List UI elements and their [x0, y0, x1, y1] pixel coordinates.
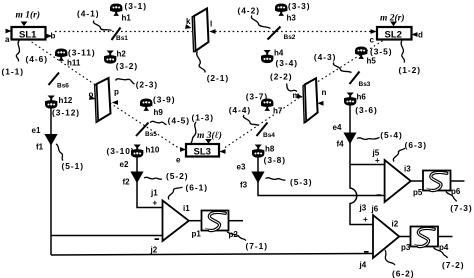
svg-text:(4-3): (4-3)	[314, 52, 336, 62]
amplifier f3	[251, 172, 264, 184]
svg-text:SL2: SL2	[385, 30, 402, 41]
svg-text:(7-3): (7-3)	[450, 203, 472, 213]
svg-text:h4: h4	[274, 49, 284, 58]
svg-text:h1: h1	[122, 14, 132, 23]
wire dashed beam mirror n to SL2	[318, 41, 383, 82]
detector h2	[104, 51, 116, 64]
leader squiggle (4-4) to Bs4	[243, 115, 258, 126]
wire op2 output to box p5	[411, 180, 423, 182]
leader squiggle mirror op to (2-3)	[116, 79, 135, 84]
laser source SL3	[186, 139, 219, 158]
svg-text:p: p	[114, 88, 119, 97]
svg-text:p3: p3	[401, 243, 411, 252]
svg-text:h3: h3	[287, 14, 297, 23]
svg-text:(3-3): (3-3)	[288, 1, 310, 11]
svg-text:(3-1): (3-1)	[125, 1, 147, 11]
leader squiggle op2 to (6-3)	[393, 148, 405, 162]
wire dashed beam SL1 to mirror o	[28, 40, 97, 87]
svg-text:(4-6): (4-6)	[26, 54, 48, 64]
wire box S3 output	[438, 236, 453, 238]
svg-text:m 1(r): m 1(r)	[16, 10, 41, 21]
svg-text:+: +	[153, 199, 158, 208]
svg-text:m 3(ℓ): m 3(ℓ)	[197, 130, 222, 141]
svg-text:(1-2): (1-2)	[399, 65, 421, 75]
svg-text:(3-4): (3-4)	[276, 58, 298, 68]
beam splitter Bs1	[112, 28, 121, 41]
svg-text:(5-2): (5-2)	[166, 171, 188, 181]
svg-text:(3-6): (3-6)	[355, 105, 377, 115]
svg-text:+: +	[363, 215, 368, 224]
detector h5	[355, 47, 367, 59]
svg-text:Bs1: Bs1	[116, 35, 128, 42]
svg-text:(6-2): (6-2)	[392, 268, 414, 278]
leader squiggle p6 to (7-3)	[446, 192, 457, 202]
svg-text:(6-1): (6-1)	[186, 182, 208, 192]
svg-text:j3: j3	[359, 204, 367, 213]
wire dashed beam mirror p to SL3	[110, 103, 181, 150]
svg-text:(5-3): (5-3)	[290, 177, 312, 187]
svg-text:m 2(r): m 2(r)	[380, 13, 405, 24]
detector h12	[45, 96, 57, 109]
svg-text:(3-2): (3-2)	[116, 61, 138, 71]
svg-text:e: e	[176, 156, 181, 165]
svg-text:l: l	[210, 20, 212, 29]
leader squiggle op3 to (6-2)	[385, 250, 395, 265]
svg-text:h12: h12	[59, 96, 73, 105]
transfer box S2	[423, 171, 451, 191]
op-amp U1	[163, 201, 189, 242]
svg-text:(5-1): (5-1)	[62, 161, 84, 171]
svg-text:Bs3: Bs3	[359, 81, 371, 88]
svg-text:p6: p6	[451, 187, 461, 196]
leader squiggle f3 to (5-3)	[266, 178, 286, 180]
leader squiggle (4-2) to Bs2	[251, 16, 270, 29]
port arrow d into SL2 right	[411, 32, 417, 37]
leader squiggle p4 to (7-2)	[434, 248, 448, 259]
port arrow into SL2 left	[371, 29, 377, 34]
svg-text:(2-3): (2-3)	[136, 79, 158, 89]
svg-text:(7-1): (7-1)	[246, 241, 268, 251]
svg-text:e3: e3	[237, 163, 246, 172]
svg-text:d: d	[418, 31, 423, 40]
detector h10	[131, 145, 143, 158]
transfer box S3	[411, 227, 439, 247]
svg-text:(3-8): (3-8)	[264, 155, 286, 165]
port arrow into SL3 left	[180, 147, 186, 152]
svg-text:j4: j4	[359, 261, 367, 270]
arrow m into mirror	[297, 94, 304, 100]
leader squiggle (4-3) to Bs3	[333, 63, 351, 73]
svg-text:(2-2): (2-2)	[270, 72, 292, 82]
svg-text:(4-1): (4-1)	[77, 9, 99, 19]
port arrow b out of SL1	[46, 34, 52, 39]
svg-text:+: +	[375, 156, 380, 165]
wire main dotted beam mirror l to SL2	[215, 31, 372, 33]
leader squiggle (4-1) to Bs1	[93, 21, 111, 31]
amplifier f1	[44, 134, 57, 146]
leader squiggle op1 to (6-1)	[168, 187, 182, 200]
leader squiggle f1 to (5-1)	[56, 144, 63, 161]
port arrow into SL3 right	[219, 149, 225, 154]
detector h4	[261, 50, 273, 63]
laser source SL1	[12, 22, 46, 41]
mirror m/n	[303, 78, 318, 123]
svg-text:(5-4): (5-4)	[380, 130, 402, 140]
beam splitter Bs5	[136, 123, 149, 137]
svg-text:(4-2): (4-2)	[238, 5, 260, 15]
detector h9	[140, 99, 152, 111]
minus sign op2	[377, 194, 382, 196]
arrow l into mirror	[209, 29, 215, 34]
wire h8 down through f3 to op2 minus	[258, 157, 385, 196]
beam splitter Bs4	[257, 123, 268, 137]
svg-text:h9: h9	[154, 108, 164, 117]
wire box S1 output	[229, 220, 244, 222]
detector h8	[252, 145, 264, 158]
svg-text:Bs6: Bs6	[57, 83, 69, 90]
wire op1 output to box p1	[189, 220, 202, 222]
wire box S2 output	[451, 180, 465, 182]
svg-text:b: b	[51, 32, 56, 41]
amplifier f4	[343, 133, 356, 145]
svg-text:(3-5): (3-5)	[370, 46, 392, 56]
svg-text:h6: h6	[357, 93, 367, 102]
svg-text:j2: j2	[150, 245, 158, 254]
svg-text:(4-4): (4-4)	[229, 105, 251, 115]
svg-text:h2: h2	[117, 50, 127, 59]
beam splitter Bs2	[268, 27, 281, 40]
svg-text:(3-9): (3-9)	[153, 95, 175, 105]
leader squiggle f2 to (5-2)	[144, 177, 162, 179]
svg-text:e2: e2	[120, 160, 129, 169]
wire h6 down through f4 branch to op2 plus	[350, 105, 385, 165]
leader squiggle SL1 to (1-1)	[16, 40, 19, 62]
leader squiggle p2 to (7-1)	[227, 232, 246, 241]
leader squiggle f4 to (5-4)	[357, 138, 380, 140]
svg-text:Bs2: Bs2	[284, 34, 296, 41]
wire f1 branch to op1 minus	[51, 235, 163, 237]
leader squiggle (1-3) to SL3	[191, 122, 196, 143]
svg-text:p1: p1	[192, 230, 202, 239]
wire dashed beam SL3 to mirror m	[225, 97, 301, 148]
amplifier f2	[130, 172, 143, 184]
leader squiggle SL2 to (1-2)	[401, 41, 405, 63]
svg-text:j1: j1	[150, 189, 158, 198]
minus sign op1	[155, 238, 160, 240]
svg-text:f4: f4	[337, 140, 345, 149]
svg-text:(3-12): (3-12)	[52, 108, 80, 118]
svg-text:c: c	[370, 36, 375, 45]
svg-text:e4: e4	[333, 123, 342, 132]
svg-text:(1-3): (1-3)	[192, 113, 214, 123]
detector h11	[55, 49, 67, 61]
svg-text:n: n	[322, 88, 327, 97]
arrow k into mirror	[185, 24, 192, 30]
wire f1 bottom bus to op3 minus	[51, 254, 373, 256]
beam splitter Bs6	[49, 73, 60, 86]
svg-text:i2: i2	[392, 220, 399, 229]
detector h1	[110, 4, 122, 16]
mirror k/l	[192, 9, 208, 52]
mirror o/p	[95, 78, 111, 122]
leader squiggle mirror mn to (2-2)	[287, 84, 298, 92]
svg-text:h10: h10	[146, 146, 160, 155]
leader squiggle mirror kl to (2-1)	[197, 52, 205, 73]
svg-text:p5: p5	[413, 188, 423, 197]
arrow n into mirror	[317, 101, 323, 106]
svg-text:Bs5: Bs5	[145, 131, 157, 138]
svg-text:(3-11): (3-11)	[68, 48, 96, 58]
svg-text:(2-1): (2-1)	[207, 73, 229, 83]
svg-text:j6: j6	[371, 205, 379, 214]
svg-text:(3-7): (3-7)	[246, 91, 268, 101]
svg-text:e1: e1	[32, 126, 41, 135]
arrow p into mirror	[112, 100, 118, 105]
op-amp U3	[373, 215, 399, 258]
svg-text:f2: f2	[123, 178, 131, 187]
detector h7	[261, 99, 273, 111]
beam splitter Bs3	[350, 72, 360, 85]
svg-text:(4-5): (4-5)	[168, 116, 190, 126]
port arrow a into SL1	[6, 29, 12, 34]
svg-text:SL3: SL3	[194, 147, 211, 158]
leader squiggle (4-5) to Bs5	[150, 121, 167, 124]
svg-text:f3: f3	[240, 181, 248, 190]
svg-text:(1-1): (1-1)	[2, 67, 24, 77]
svg-text:h11: h11	[67, 59, 81, 68]
arrow o into mirror	[89, 95, 96, 101]
laser source SL2	[377, 22, 412, 41]
svg-text:h5: h5	[367, 57, 377, 66]
svg-text:Bs4: Bs4	[263, 132, 275, 139]
wire op3 output to box p3	[399, 236, 410, 238]
svg-text:h8: h8	[265, 145, 275, 154]
detector h3	[275, 4, 287, 16]
wire f4 branch down with hop over f3 wire to op3 plus	[350, 165, 373, 225]
transfer box S1	[202, 211, 229, 231]
svg-text:SL1: SL1	[19, 30, 37, 41]
svg-text:i3: i3	[404, 165, 411, 174]
svg-text:h7: h7	[273, 107, 283, 116]
svg-text:i1: i1	[183, 204, 190, 213]
svg-text:(7-2): (7-2)	[442, 260, 464, 270]
wire h12 down to bottom bus	[50, 108, 52, 256]
svg-text:(3-10): (3-10)	[107, 146, 135, 156]
svg-text:a: a	[5, 35, 10, 44]
op-amp U2	[385, 160, 411, 202]
wire h10 down through f2 to op1 plus	[137, 157, 163, 208]
detector h6	[344, 93, 356, 106]
wire main dotted beam SL1 to mirror l	[55, 31, 192, 33]
svg-text:f1: f1	[36, 143, 44, 152]
minus sign op3	[364, 251, 369, 253]
svg-text:(6-3): (6-3)	[405, 140, 427, 150]
